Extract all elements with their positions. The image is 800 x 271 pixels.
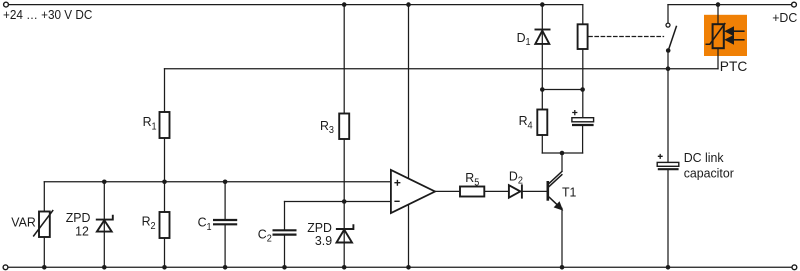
- svg-text:12: 12: [75, 223, 89, 239]
- svg-text:DC link: DC link: [684, 150, 724, 166]
- svg-text:+DC: +DC: [772, 10, 797, 26]
- svg-text:capacitor: capacitor: [684, 165, 735, 181]
- svg-text:PTC: PTC: [720, 58, 747, 74]
- svg-text:3.9: 3.9: [315, 233, 332, 249]
- svg-text:VAR: VAR: [11, 214, 35, 230]
- svg-text:T1: T1: [562, 184, 576, 200]
- svg-text:+24 … +30 V DC: +24 … +30 V DC: [3, 7, 92, 22]
